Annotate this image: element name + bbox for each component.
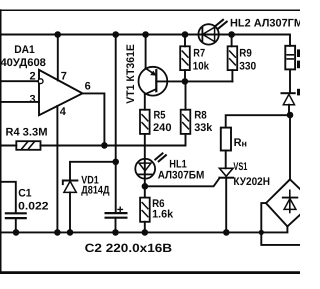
svg-text:330: 330 xyxy=(239,61,256,73)
svg-text:2: 2 xyxy=(30,71,36,83)
op-amp DA1 К140УД608 xyxy=(38,70,82,115)
resistor R10 (label cut off at edge) xyxy=(285,46,295,70)
wire: pin 7 supply to rail xyxy=(57,35,59,81)
diode inside bridge xyxy=(283,190,298,212)
wire: bridge left corner to lower-right output xyxy=(261,203,300,245)
node: bottom rail crossing at bridge column xyxy=(259,230,264,235)
node: base line junction at R7/R8 xyxy=(182,78,189,85)
label fragment of VD2 (cut off) xyxy=(297,89,300,96)
svg-text:4: 4 xyxy=(60,106,67,118)
wire: C1 top hook from left edge xyxy=(0,182,16,213)
wire: R7 top to rail xyxy=(184,35,186,47)
LED HL1 xyxy=(135,153,166,178)
wire: R4 line from left edge xyxy=(0,145,16,147)
wire: R5 bottom through HL1 to R6 xyxy=(144,134,146,198)
resistor R7 xyxy=(180,46,190,70)
resistor R5 xyxy=(140,110,150,134)
svg-text:240: 240 xyxy=(153,122,172,134)
svg-text:VT1 КТ361Е: VT1 КТ361Е xyxy=(125,44,137,104)
capacitor C2 (electrolytic) xyxy=(106,207,127,232)
svg-text:АЛ307БМ: АЛ307БМ xyxy=(158,169,205,181)
node: HL1 cathode / R6 / VS1 gate junction xyxy=(142,183,149,190)
svg-text:0.022: 0.022 xyxy=(18,201,48,213)
node: junction right column / Rн line xyxy=(287,112,294,119)
wire: C2 column from rail to bottom rail xyxy=(115,35,117,213)
wire: pin 4 down to bottom rail xyxy=(56,106,58,232)
svg-text:3: 3 xyxy=(30,93,36,105)
svg-text:С2 220.0x16В: С2 220.0x16В xyxy=(85,241,173,255)
svg-text:R9: R9 xyxy=(239,48,252,60)
resistor R4 xyxy=(16,141,40,150)
svg-text:10k: 10k xyxy=(193,61,210,73)
node: rail junction at pin 7 xyxy=(54,31,61,38)
resistor R6 xyxy=(140,198,150,222)
wire: pin 6 output to feedback node xyxy=(83,93,105,145)
wire: R9 bottom to base line xyxy=(231,70,233,81)
wire: top supply rail xyxy=(0,35,290,46)
wire: R7 bottom to base line xyxy=(184,70,186,81)
resistor Rн (load) xyxy=(221,128,231,151)
node: rail junction at R7 xyxy=(182,31,189,38)
transistor VT1 КТ361Е xyxy=(139,35,233,110)
wire: bridge bottom corner stub to bottom rail xyxy=(286,226,288,231)
label fragment of R10 (cut off) xyxy=(297,49,300,57)
svg-text:КУ202Н: КУ202Н xyxy=(233,176,270,188)
wire: R6 bottom to bottom rail xyxy=(144,222,146,233)
bridge rectifier VD (diamond) xyxy=(266,179,300,226)
svg-text:Rн: Rн xyxy=(234,137,247,149)
svg-text:HL2 АЛ307ГМ: HL2 АЛ307ГМ xyxy=(230,17,300,29)
LED HL2 xyxy=(198,20,226,45)
resistor R9 xyxy=(228,46,238,70)
wire: junction down to bridge top corner xyxy=(289,115,291,179)
svg-text:VS1: VS1 xyxy=(233,161,247,173)
svg-text:6: 6 xyxy=(85,81,91,93)
svg-text:1.6k: 1.6k xyxy=(152,209,174,221)
node: bottom rail at VS1 xyxy=(223,229,230,236)
svg-text:R43.3M: R43.3M xyxy=(6,127,48,139)
svg-text:Д814Д: Д814Д xyxy=(81,185,109,197)
svg-text:7: 7 xyxy=(61,71,67,83)
node: bottom rail at C2 xyxy=(112,229,119,236)
wire: VS1 gate from HL1 junction xyxy=(145,178,220,186)
svg-text:R5: R5 xyxy=(154,109,166,121)
node: bottom rail at R6 xyxy=(142,229,149,236)
wire: R8 top to base junction xyxy=(185,81,187,109)
node: rail junction at R9 xyxy=(228,31,235,38)
node: junction VD1 / C2 column xyxy=(112,159,119,166)
node: bottom rail at pin 4 xyxy=(54,229,61,236)
svg-text:R7: R7 xyxy=(193,48,205,60)
wire: Rн top to right column xyxy=(226,115,290,127)
zener diode VD1 Д814Д xyxy=(63,181,78,233)
svg-text:К140УД608: К140УД608 xyxy=(0,57,46,69)
wire: R9 top to rail xyxy=(231,35,233,47)
node: bottom rail at C1 xyxy=(13,229,20,236)
node: rail junction at C2 column xyxy=(112,31,119,38)
node: bottom rail at VD1 xyxy=(67,229,74,236)
svg-text:С1: С1 xyxy=(18,188,31,200)
wire: R4 to junction to R8 bottom xyxy=(41,134,186,146)
svg-text:R8: R8 xyxy=(194,109,207,121)
wire: pin 2 inverting input from left edge xyxy=(0,80,38,82)
capacitor C1 xyxy=(6,213,26,232)
thyristor VS1 КУ202Н xyxy=(219,151,233,233)
wire: right column resistor to diode xyxy=(289,69,291,93)
wire: pin 3 non-inverting input from left edge xyxy=(0,101,39,103)
node: rail junction at VT1 emitter xyxy=(142,31,149,38)
resistor R8 xyxy=(181,110,191,134)
diode VD2 (label cut off at edge) xyxy=(282,93,295,115)
svg-text:33k: 33k xyxy=(194,122,213,134)
node: junction of pin6 / R4 / R8 line xyxy=(101,142,108,149)
wire: bottom common rail xyxy=(0,231,287,233)
wire: VD1 top hook to C2 column xyxy=(70,162,116,180)
svg-text:DA1: DA1 xyxy=(14,44,35,56)
